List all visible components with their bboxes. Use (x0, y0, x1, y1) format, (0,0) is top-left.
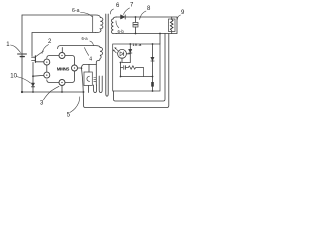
leader for 6-a (81, 13, 93, 17)
crossbar wire to box 5 (82, 64, 97, 72)
wire bottom contact to rail (61, 86, 63, 93)
load 9 (169, 19, 176, 32)
leader for 2 (42, 45, 49, 54)
svg-text:6-a: 6-a (82, 36, 89, 41)
svg-text:5: 5 (67, 112, 71, 118)
lower unit box (113, 44, 160, 91)
wire: lower primary return (32, 33, 96, 57)
svg-text:10-a: 10-a (133, 43, 143, 47)
switch contact (34, 56, 36, 63)
capacitor 8 (135, 17, 137, 22)
element on right branch (151, 82, 154, 87)
leader for 6-c (90, 41, 94, 45)
svg-text:2: 2 (48, 39, 52, 45)
component 10 on left line (31, 83, 34, 86)
contact circle lower-left (44, 72, 50, 78)
box5 lead down (88, 86, 90, 93)
component 5 (driver box) (84, 72, 92, 86)
junction dots bottom (21, 91, 23, 93)
svg-text:6-a: 6-a (72, 8, 80, 14)
tap line (120, 63, 122, 77)
wire x165 down to lower box bottom (114, 34, 166, 102)
primary winding 6-a (96, 18, 103, 33)
contact circle upper-left (44, 59, 50, 65)
LED leads (126, 53, 130, 55)
contact circle top (59, 53, 65, 59)
diode 7 (121, 15, 125, 19)
terminal U shapes (94, 85, 97, 93)
leader for 9 (177, 15, 180, 20)
leader for 6 (110, 9, 113, 14)
svg-text:6: 6 (116, 3, 120, 9)
wire right contact down (drifts) (78, 34, 169, 108)
leader for 1 (11, 45, 21, 53)
leader for 8 (140, 11, 147, 20)
RC branch: capacitor (121, 67, 123, 69)
winding lead down (95, 65, 97, 86)
contact circle bottom (59, 80, 65, 86)
svg-text:3: 3 (40, 100, 44, 106)
leader for 4 (84, 48, 88, 56)
wire: top contact riser to transformer (58, 46, 100, 53)
right branch in lower box (152, 44, 154, 91)
diode on LED branch (129, 49, 132, 52)
wire to upper-left contact (35, 61, 43, 63)
svg-text:1: 1 (6, 42, 10, 48)
bottom wire (22, 91, 84, 93)
leader for 3 (44, 86, 60, 100)
svg-text:9: 9 (181, 10, 185, 16)
RC branch: resistor (128, 66, 143, 77)
wire x33 to lower-left contact (33, 74, 44, 77)
svg-text:MMNS: MMNS (57, 66, 70, 71)
wire from secondary to lower box (159, 34, 161, 45)
ring wiring of vibrator contacts (47, 56, 59, 59)
leader for 5 (70, 97, 80, 113)
svg-text:8: 8 (147, 6, 151, 12)
contact circle right (72, 65, 78, 71)
LED lamp (118, 49, 127, 58)
transformer core (106, 14, 108, 96)
svg-text:7: 7 (130, 3, 134, 9)
wire: left line down (32, 62, 34, 92)
lower horizontal wire (121, 76, 153, 78)
junction dots on secondary bottom (159, 33, 161, 35)
wire: top horizontal to transformer primary (22, 15, 100, 18)
LED arrows (115, 48, 118, 51)
winding 6-c (96, 47, 102, 64)
wire: battery left vertical (21, 15, 23, 92)
secondary winding 6-b (112, 17, 117, 34)
leader for 7 (124, 8, 130, 15)
secondary loop wires (116, 17, 177, 34)
diode on right branch (151, 57, 154, 60)
battery 1 (18, 53, 27, 55)
leader for 10 (17, 77, 31, 84)
svg-text:4: 4 (89, 56, 92, 62)
